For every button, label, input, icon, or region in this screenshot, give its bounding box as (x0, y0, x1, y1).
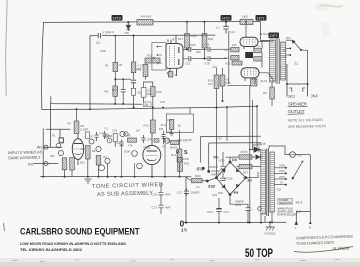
capacitor C11 coupling upper second with label (204, 43, 210, 52)
pot VR5 treble (120, 131, 125, 136)
wire HT row y=157 (226, 156, 263, 158)
wire output cluster left vertical (228, 31, 230, 84)
junction dot R18 on lower output (204, 58, 206, 60)
pot VR8 circle preamp (99, 165, 105, 171)
wire lower bus B (frame bottom continuing right) (42, 106, 257, 109)
resistor R4 on rail with label (137, 15, 153, 26)
switch S2 mains text block (278, 198, 293, 205)
wire tone drops to bus (122, 144, 166, 177)
diode D4 bottom-left (222, 184, 226, 188)
resistor R28 second row with label (237, 164, 261, 174)
wire R10 column from rail2 (133, 36, 135, 80)
resistor R25 lower right (254, 57, 262, 61)
scan speckles bottom band (12, 260, 340, 262)
capacitor C16b stacked with label (152, 205, 171, 214)
wire heater line lower (209, 142, 261, 144)
rectifier bridge MT126 diamond (216, 162, 245, 195)
capacitor C17 pair right of V2 (158, 127, 166, 144)
valve V4 EL34 upper (240, 37, 258, 49)
transformer T1 primary winding (270, 40, 276, 82)
resistor R5 anode with label (74, 109, 86, 134)
junction dots tone ground bus (42, 176, 166, 178)
wire bridge top to HT row (229, 157, 231, 162)
wire vertical x=90 joining rails (89, 36, 91, 110)
wire HT2 rail segment y=35.5 (90, 34, 215, 37)
wire T2 bottom drops to rail (261, 212, 272, 222)
diode D5 bottom-right (236, 184, 240, 188)
junction dot R1 R6 jog (114, 78, 116, 80)
capacitor C8 box lower with label (131, 88, 141, 108)
mains plug earth text block (278, 208, 298, 217)
resistor R15 small box row (170, 141, 179, 150)
capacitor C22 left of S1B with label (177, 188, 200, 196)
resistor R14 vertical with label and S mark (171, 130, 182, 178)
wire PI lower output y=58.7 (183, 58, 227, 60)
wire V1 feed down from bus A (50, 104, 52, 147)
junction dots bridge corners with handwritten tags (214, 156, 253, 196)
capacitor C10 coupling lower with label (185, 56, 191, 65)
resistor R12 vertical with label (136, 63, 148, 80)
wire V4 anode to OPT top (258, 40, 273, 42)
faint smudge top right (315, 3, 329, 10)
wire input left vertical (42, 129, 44, 177)
capacitor C14 under HT2 with label (216, 22, 235, 34)
node OP centre tag dark box (245, 52, 253, 58)
resistor R1a grid with label (59, 138, 64, 143)
wire T2 tap 0V with label (274, 180, 287, 185)
junction dot HT3 (127, 21, 129, 23)
stray pen mark bottom left (4, 223, 5, 231)
pot D1 small circle tone (107, 138, 112, 143)
wire T2 tap 200V with label (274, 175, 287, 180)
capacitor C9 coupling upper with label (189, 43, 196, 52)
wire bottom 0V rail (184, 221, 286, 223)
wire preamp ground bus (41, 176, 192, 178)
capacitor C12 coupling lower second with label (205, 56, 211, 65)
jack socket 2 (44, 162, 48, 166)
wire output stage HT drop left (249, 86, 251, 223)
resistor R15 on R13 column with label (151, 82, 162, 120)
resistor R16 cathode second with wire down (220, 68, 231, 102)
terminal N mains neutral with arrow (309, 212, 312, 230)
pot VR3 (96, 146, 101, 151)
resistor R27 with label (239, 150, 252, 160)
transformer T2 core (267, 149, 269, 217)
resistor R3b leg (70, 158, 75, 177)
pot VR2 (89, 139, 94, 144)
capacitor C5 electrolytic with label (141, 82, 153, 102)
grid stubs inside box (157, 47, 162, 64)
transformer T2 primary winding (261, 150, 266, 214)
valve V2 triode tremolo (143, 133, 161, 178)
terminal L mains live with arrow (295, 212, 298, 230)
resistor R1 with label (105, 62, 118, 71)
pot VR6 bass (132, 151, 138, 163)
transformer T2 secondary winding (270, 152, 274, 212)
resistor R17 anode load with label (178, 21, 189, 50)
node 0V bold mark (180, 220, 188, 233)
wire output cluster right vertical (261, 40, 263, 68)
wire bus B to tremolo box feed (189, 108, 191, 114)
node HT2 label (221, 15, 232, 21)
wire input channel line 2 (34, 163, 58, 165)
resistor R9 horizontal with label (128, 134, 137, 143)
resistor R6 cathode with label (86, 146, 91, 178)
diode D2 top-left (222, 169, 226, 173)
capacitor C25 with label (212, 176, 226, 197)
faint pen smudge top right (319, 5, 343, 7)
junction dots bottom rail (218, 221, 273, 223)
resistor R1b grid 2 (56, 143, 61, 148)
bottom scan shadow band (0, 258, 360, 262)
jack JK3 JK4 speaker outlet bar (286, 83, 309, 97)
wire input top jog (46, 129, 70, 137)
capacitor C23 smoothing with label (209, 152, 226, 176)
wire bus A (51, 97, 142, 105)
junction dots bus A and B extra (76, 35, 259, 111)
footswitch sub-assembly box (166, 114, 193, 132)
signature underline swoosh (294, 247, 353, 253)
resistor R6 with label (105, 79, 118, 105)
valve V3 neon below box (164, 138, 169, 143)
wire left frame vertical (42, 22, 44, 109)
label JN1 handwritten with input arrow (36, 146, 48, 150)
label OUTLET handwritten underlined (288, 109, 305, 114)
wire speaker common down (286, 64, 288, 84)
wire output stage HT drop right (251, 100, 253, 150)
wire HT1 down to OPT (261, 22, 270, 41)
wire input channel line 1 (44, 146, 62, 148)
transformer T1 secondary winding (281, 42, 286, 80)
resistor R8 with wire (96, 156, 101, 178)
node HT3 label (112, 15, 123, 21)
capacitor C7 electrolytic mid with label (112, 78, 126, 105)
junction dot HT2 (225, 21, 227, 23)
jack socket 1 (44, 145, 48, 149)
resistor R3a leg (62, 158, 67, 178)
cathode resistor under valve (168, 72, 176, 78)
wire ground bus down to 0V rail (185, 177, 187, 223)
resistor R19 cathode with wire down (208, 68, 219, 177)
junction dot R17 on upper output (186, 48, 188, 50)
wire output cluster top link (245, 22, 247, 38)
resistor R26 left vertical with label (178, 158, 190, 172)
resistor R23 grid stopper with label (226, 61, 243, 66)
diode D7 BY126 with label (253, 143, 262, 160)
switch voltage selector arm (292, 161, 304, 180)
wire T2 tap 240V with label (274, 164, 287, 169)
switch speaker selector arm with arrowhead (292, 40, 308, 51)
wire heater line upper (201, 135, 262, 137)
capacitor C7 electrolytic with label (112, 129, 118, 148)
capacitor C26 reservoir with label (230, 195, 254, 223)
transformer T1 core (277, 39, 279, 85)
ground chassis symbol with hatching (265, 222, 276, 235)
diode D1 under rail with label (125, 22, 131, 35)
resistor R18 anode load with label (202, 21, 213, 59)
valve V5 EL34 lower (241, 68, 259, 84)
op-amp? no: valve V2 ECC83 envelope (166, 35, 183, 76)
wire secondary tap 15ohm with label (286, 36, 292, 40)
label SPEAKER handwritten underlined (288, 102, 308, 107)
resistor R24 on ground link with label (185, 174, 215, 183)
resistor R13 vertical feed with label (144, 106, 156, 133)
wire jog to right column (115, 78, 131, 80)
wire HT top rail (44, 21, 261, 24)
wire V5 anode to OPT bottom (259, 73, 273, 82)
sub-assembly box around V2 grid (152, 43, 166, 70)
diode D8 BY126 top of T2 with label (249, 142, 266, 153)
pot VR1 volume (58, 150, 63, 155)
wire bridge right to transformer (246, 172, 258, 178)
node D24 tag on bus A (144, 102, 152, 107)
capacitor C2 (94, 132, 98, 141)
wire small link to R29 (227, 85, 250, 87)
resistor R10 with label (131, 62, 143, 73)
capacitor C1 beside V1 (86, 132, 90, 139)
wire screen feed drop (256, 106, 258, 150)
capacitor C13 pair (120, 140, 124, 148)
resistor R25 under OPT with label (263, 82, 274, 106)
inductor L1 inside box (161, 120, 174, 136)
wire secondary tap 4ohm with label (283, 54, 292, 59)
capacitor C16a stacked with label (152, 183, 171, 205)
paper edge line top-left (6, 0, 8, 96)
pilot lamp small circle under T2 (258, 207, 262, 211)
wire x227 down to heater area (226, 107, 228, 141)
ground symbol preamp (85, 179, 92, 183)
diode D3 top-right (236, 168, 240, 172)
pot D2 small circle tone right (124, 132, 128, 136)
capacitor C24 on rail with label (207, 198, 229, 223)
transformer T1 OPT label box (269, 33, 280, 39)
resistor R24a on rail with label (240, 14, 253, 24)
capacitor C3 horizontal coupling (103, 134, 112, 138)
pot VR4 2M (105, 158, 110, 177)
fuse FS1 lamp circle (290, 152, 303, 158)
wire heater drops (201, 137, 209, 172)
capacitor C6 bars on R10 column (131, 80, 136, 88)
pot VR7 (137, 163, 143, 169)
wire secondary tap 8ohm with label (283, 48, 291, 53)
wire speaker feed down (307, 50, 309, 84)
capacitor C15 small (142, 135, 146, 143)
resistor R22 screen lower with label (225, 55, 240, 60)
resistor R32 small box tone (154, 139, 159, 143)
capacitor C4 on HT2 rail with label (96, 30, 114, 45)
wire T2 tap 220V with label (274, 169, 287, 174)
switch S1A with dots and label (197, 167, 211, 173)
capacitor C30 pair tone (103, 131, 107, 139)
resistor R29 (251, 79, 258, 86)
resistor R20 upper right (254, 49, 262, 53)
resistor R21 screen upper with label (225, 47, 240, 52)
wire R1 column from rail2 (114, 36, 116, 80)
note voltage selector handwritten (211, 169, 221, 177)
valve V1 ECC83 preamp (72, 134, 83, 166)
node HT1 label (256, 15, 267, 21)
wire mains loop top and right (269, 146, 310, 212)
resistor R11 horizontal with label (145, 54, 160, 64)
wire PI upper output y=49.5 (183, 48, 231, 50)
